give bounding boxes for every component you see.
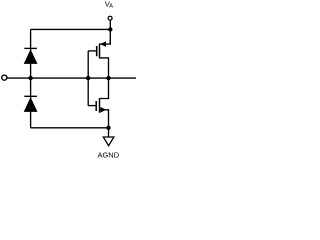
wire: gate rail joining Q1 and Q2 gates (87, 51, 89, 106)
diode D2 (clamp to AGND), cathode bar (24, 95, 37, 97)
VA terminal circle (108, 16, 112, 20)
transistor Q1 source arrow (100, 41, 106, 47)
transistor Q2 source lead (bottom) (100, 110, 109, 128)
transistor Q2 channel bar (99, 98, 101, 113)
wire: VA vertical down to Q1 source (109, 21, 111, 44)
svg-text:A: A (109, 3, 113, 9)
node: junction dot gate rail / input wire (86, 76, 90, 80)
wire: diode chain vertical (30, 29, 32, 127)
ground AGND symbol (103, 137, 114, 146)
transistor Q1 (PMOS clamp) gate lead (88, 50, 96, 52)
svg-text:AGND: AGND (97, 151, 119, 160)
node: junction dot bottom rail / AGND (106, 126, 110, 130)
node: junction dot drain rail / input wire (106, 76, 110, 80)
transistor Q1 drain lead (bottom) (100, 58, 109, 78)
wire: top rail to VA (31, 28, 111, 30)
transistor Q1 channel bar (99, 44, 101, 59)
transistor Q2 gate lead (88, 105, 96, 107)
node: junction dot top rail / VA (108, 27, 112, 31)
transistor Q2 gate bar (95, 101, 97, 111)
wire: mid input net from terminal to right edge (7, 77, 136, 79)
transistor Q1 source lead (top) (100, 40, 111, 44)
wire: bottom rail from diode chain to AGND node (31, 127, 109, 129)
diode D1 (clamp to VA), cathode bar (24, 47, 37, 49)
wire: AGND stub (108, 128, 110, 137)
diode D2 body (24, 97, 38, 112)
node: junction dot diode chain / input wire (28, 76, 32, 80)
input terminal circle (2, 75, 7, 80)
transistor Q1 gate bar (96, 46, 98, 56)
transistor Q2 (NMOS clamp) drain lead (top) (100, 78, 109, 98)
diode D1 body (24, 49, 38, 64)
transistor Q2 source arrow (100, 107, 106, 113)
